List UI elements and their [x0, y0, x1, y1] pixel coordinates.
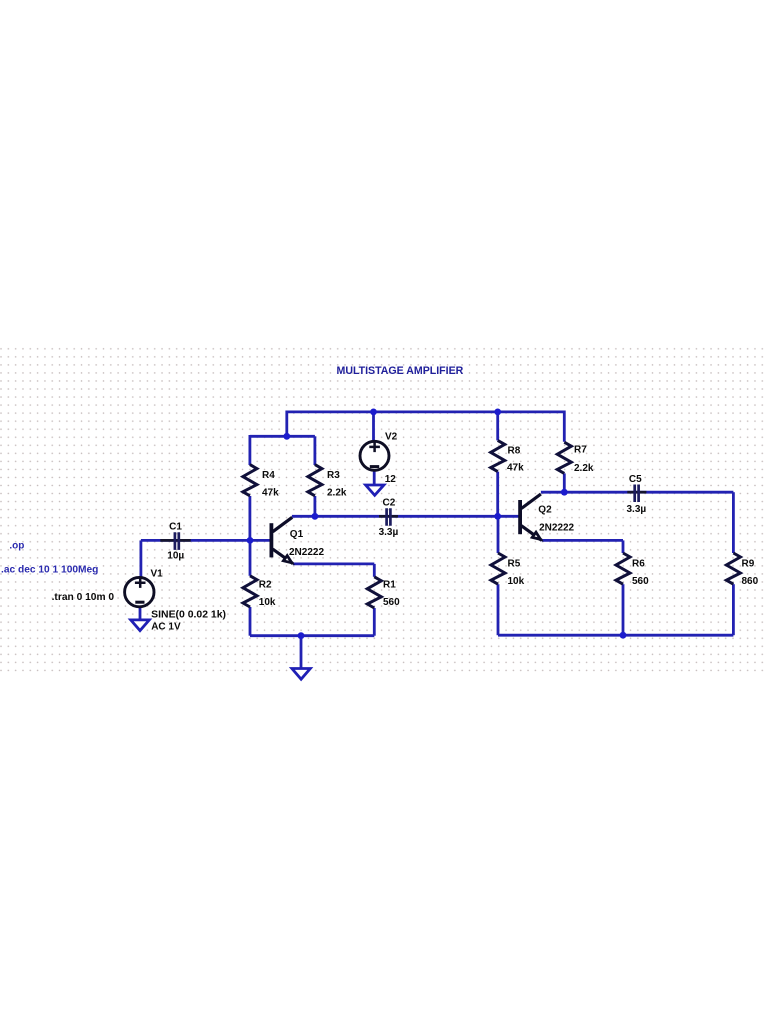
- svg-text:10k: 10k: [508, 576, 525, 587]
- junction Q2 collector: [561, 489, 568, 496]
- capacitor C2: [379, 508, 398, 526]
- junction R6 bottom: [620, 632, 627, 639]
- wire V1 top: [139, 540, 142, 577]
- svg-text:R9: R9: [742, 559, 755, 570]
- svg-text:MULTISTAGE AMPLIFIER: MULTISTAGE AMPLIFIER: [337, 365, 464, 377]
- transistor Q1: [271, 517, 293, 563]
- resistor R4: [243, 465, 257, 496]
- svg-text:860: 860: [742, 576, 759, 587]
- resistor R1: [367, 577, 381, 608]
- junction V2 top: [370, 409, 377, 416]
- resistor R8: [491, 440, 505, 471]
- wire R7 bottom lead: [563, 473, 566, 492]
- wire R5 top lead: [497, 516, 500, 553]
- svg-text:R4: R4: [262, 470, 275, 481]
- wire Q2 collector to C5 and R9: [541, 491, 734, 494]
- wire R4 top lead: [248, 435, 251, 465]
- svg-text:C5: C5: [629, 474, 642, 485]
- transistor Q2: [520, 494, 542, 540]
- wire V1 ground stub: [139, 607, 142, 620]
- svg-text:V1: V1: [151, 569, 164, 580]
- resistor R7: [557, 442, 571, 473]
- wire R6 bottom lead: [622, 584, 625, 635]
- wire R5 bottom lead: [497, 584, 500, 635]
- wire R1 bottom lead: [373, 608, 376, 636]
- junction ground stage1: [298, 632, 305, 639]
- capacitor C5: [627, 485, 646, 503]
- svg-text:10µ: 10µ: [167, 551, 184, 562]
- svg-text:.tran 0 10m 0: .tran 0 10m 0: [52, 592, 115, 603]
- ground stage1: [292, 669, 310, 680]
- svg-text:3.3µ: 3.3µ: [379, 527, 399, 538]
- wire R3 bottom lead: [313, 496, 316, 516]
- wire R1 top lead: [373, 564, 376, 577]
- svg-text:Q1: Q1: [290, 529, 304, 540]
- wire R8 bottom lead: [496, 472, 499, 517]
- dotted grid background: [0, 346, 768, 675]
- svg-text:SINE(0 0.02 1k): SINE(0 0.02 1k): [151, 609, 226, 620]
- svg-text:R3: R3: [327, 470, 340, 481]
- svg-text:R8: R8: [508, 446, 521, 457]
- wire R4/R3 tee: [250, 435, 315, 438]
- wire R9 top drop: [732, 492, 735, 553]
- svg-text:V2: V2: [385, 431, 398, 442]
- svg-text:560: 560: [383, 597, 400, 608]
- svg-text:R5: R5: [508, 559, 521, 570]
- svg-text:.op: .op: [9, 541, 24, 552]
- junction R4/R3 tee: [283, 433, 290, 440]
- svg-text:10k: 10k: [259, 597, 276, 608]
- wire Q1 emitter: [293, 563, 374, 566]
- svg-text:R6: R6: [632, 559, 645, 570]
- svg-text:C1: C1: [169, 521, 182, 532]
- capacitor C1: [160, 532, 190, 550]
- svg-text:R7: R7: [574, 445, 587, 456]
- wire R4 to Q1 base: [248, 496, 251, 540]
- wire R9 bottom lead: [732, 584, 735, 635]
- wire top rail with corners: [287, 412, 565, 442]
- voltage source V2: [360, 441, 389, 470]
- junction Q1 base: [247, 537, 254, 544]
- voltage source V1: [125, 577, 154, 606]
- ground V2: [366, 485, 384, 495]
- junction R8 top: [494, 409, 501, 416]
- svg-text:.ac dec 10 1 100Meg: .ac dec 10 1 100Meg: [1, 564, 98, 575]
- svg-text:47k: 47k: [262, 488, 279, 499]
- svg-text:2N2222: 2N2222: [539, 523, 574, 534]
- svg-text:3.3µ: 3.3µ: [627, 504, 647, 515]
- svg-text:2.2k: 2.2k: [327, 488, 347, 499]
- wire Q2 emitter: [542, 539, 623, 542]
- wire ground stub stage1: [300, 636, 303, 669]
- svg-text:AC 1V: AC 1V: [151, 622, 181, 633]
- wire V2 top stub: [372, 412, 375, 442]
- svg-text:560: 560: [632, 576, 649, 587]
- svg-text:2N2222: 2N2222: [289, 547, 324, 558]
- wire Q1 base: [141, 539, 272, 542]
- svg-text:Q2: Q2: [538, 504, 552, 515]
- wire R3 top lead: [313, 436, 316, 465]
- wire bottom rail stage2: [498, 634, 733, 637]
- resistor R3: [308, 465, 322, 496]
- svg-text:R1: R1: [383, 580, 396, 591]
- svg-text:C2: C2: [383, 497, 396, 508]
- junction Q2 base: [494, 513, 501, 520]
- junction Q1 collector: [312, 513, 319, 520]
- wire Q1 collector to Q2 base: [292, 515, 520, 518]
- resistor R5: [491, 553, 505, 584]
- wire R6 top lead: [622, 540, 625, 553]
- wire V2 ground stub: [373, 470, 376, 485]
- svg-text:R2: R2: [259, 580, 272, 591]
- svg-text:2.2k: 2.2k: [574, 463, 594, 474]
- ground V1: [131, 620, 150, 631]
- svg-text:12: 12: [385, 474, 397, 485]
- wire bottom rail stage1: [250, 634, 374, 637]
- wire R2 top lead: [249, 540, 252, 575]
- svg-text:47k: 47k: [507, 463, 524, 474]
- resistor R6: [616, 553, 630, 584]
- resistor R2: [243, 576, 257, 607]
- wire R2 bottom lead: [249, 607, 252, 636]
- wire R8 top lead: [496, 412, 499, 441]
- resistor R9: [726, 553, 740, 584]
